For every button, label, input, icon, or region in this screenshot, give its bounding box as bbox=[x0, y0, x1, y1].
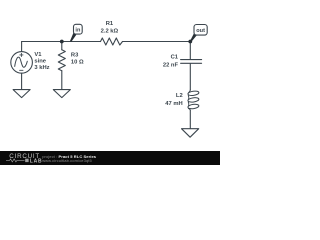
wire top-right segment from R1 to out node bbox=[123, 41, 191, 43]
wire V1 top riser bbox=[21, 42, 23, 52]
svg-text:10 Ω: 10 Ω bbox=[71, 60, 84, 66]
resistor R1 bbox=[101, 38, 123, 45]
ground under R3 bbox=[53, 90, 70, 98]
inductor L2 bbox=[188, 90, 199, 110]
V1 plus sign bbox=[20, 53, 23, 56]
node flag "in" pointer bbox=[70, 33, 76, 42]
wire R3 top lead bbox=[61, 42, 63, 50]
wire L2 to ground bbox=[189, 110, 191, 129]
svg-text:in: in bbox=[75, 27, 81, 33]
svg-text:2.2 kΩ: 2.2 kΩ bbox=[101, 28, 119, 34]
ground under L2 bbox=[182, 129, 199, 138]
svg-text:C1: C1 bbox=[171, 54, 179, 60]
svg-text:V1: V1 bbox=[34, 52, 42, 58]
CircuitLab logo bbox=[5, 152, 45, 165]
capacitor C1 bottom plate bbox=[181, 62, 202, 64]
footer bar bbox=[0, 151, 220, 166]
svg-text:R1: R1 bbox=[106, 21, 114, 27]
junction node at R3 top bbox=[60, 40, 64, 44]
V1 sine symbol bbox=[15, 57, 28, 67]
capacitor C1 top plate bbox=[181, 59, 202, 61]
resistor R3 bbox=[58, 50, 65, 71]
V1 minus sign bbox=[20, 69, 23, 71]
svg-text:3 kHz: 3 kHz bbox=[34, 65, 49, 71]
node flag "out" box bbox=[194, 25, 207, 36]
node flag "out" pointer bbox=[190, 33, 197, 42]
svg-text:sine: sine bbox=[34, 59, 46, 65]
svg-text:LAB: LAB bbox=[30, 158, 43, 164]
junction node at C1 top bbox=[188, 40, 192, 44]
svg-text:out: out bbox=[196, 28, 205, 34]
svg-text:47 mH: 47 mH bbox=[165, 101, 182, 107]
svg-text:L2: L2 bbox=[176, 93, 183, 99]
wire top-left segment from V1 to R1 bbox=[22, 41, 101, 43]
voltage source V1 circle bbox=[11, 52, 33, 74]
footer project text bbox=[42, 154, 96, 159]
wire R3 bottom lead bbox=[61, 71, 63, 90]
ground under V1 bbox=[13, 90, 30, 98]
svg-text:R3: R3 bbox=[71, 53, 79, 59]
node flag "in" box bbox=[74, 24, 83, 34]
footer url text bbox=[42, 158, 92, 163]
svg-text:22 nF: 22 nF bbox=[163, 62, 179, 68]
wire C1 top lead bbox=[189, 42, 191, 60]
wire C1 to L2 bbox=[189, 64, 191, 91]
wire V1 bottom to ground bbox=[21, 73, 23, 89]
